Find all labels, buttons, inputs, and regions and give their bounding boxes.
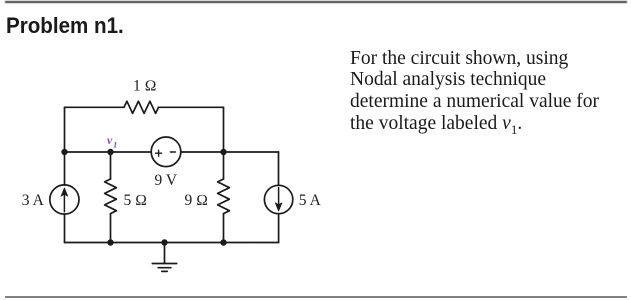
wire top horizontal right lead [159,106,224,108]
node dot (9ohm top) [220,149,226,155]
wire right vertical above 5A source [278,152,280,185]
current source I1 3A circle [50,185,79,214]
bottom rule [5,296,627,298]
current source 5A arrow down [278,188,280,208]
wire right vertical below 5A source [278,214,280,243]
svg-text:9 Ω: 9 Ω [185,192,209,209]
wire 9ohm branch lower lead [223,214,225,243]
svg-text:v1: v1 [107,133,117,149]
node dot A (left mid junction) [61,149,67,155]
wire top-left: left vertical upper segment [64,107,66,152]
voltage source plus sign [156,150,162,156]
svg-text:9 V: 9 V [155,172,178,189]
current source 3A arrow up [63,192,65,212]
svg-text:5 A: 5 A [299,192,322,209]
ground bar 1 [152,263,176,265]
voltage source minus sign [170,151,175,153]
resistor R 1ohm (horizontal zigzag) [124,101,159,113]
resistor R 9ohm (vertical zigzag) [218,179,230,214]
ground stem [164,243,166,264]
ground bar 2 [158,267,171,269]
node dot (ground junction) [161,239,167,245]
current source I2 5A circle [264,185,292,213]
svg-text:3 A: 3 A [22,192,45,209]
svg-text:1 Ω: 1 Ω [133,78,157,95]
wire 5ohm branch upper lead [110,152,112,179]
wire 5ohm branch lower lead [110,214,112,243]
problem statement paragraph [350,48,615,141]
node dot v1 (5ohm top) [107,149,113,155]
wire bottom horizontal [65,242,279,244]
top rule bar [5,1,627,3]
ground bar 3 [162,270,167,272]
node dot (5ohm bottom) [107,239,113,245]
resistor R 5ohm (vertical zigzag) [105,179,117,214]
wire middle horizontal left of source [65,151,152,153]
svg-text:5 Ω: 5 Ω [124,192,148,209]
voltage source V1 9V circle [151,137,181,167]
wire top horizontal left lead [65,106,125,108]
node dot (9ohm bottom) [220,239,226,245]
wire left vertical below 3A source [64,214,66,242]
wire left vertical above 3A source [64,152,66,185]
wire 9ohm branch upper lead [223,152,225,179]
wire middle horizontal right of source [181,151,279,153]
wire top-right vertical drop [223,107,225,152]
title Problem n1. [6,13,124,39]
